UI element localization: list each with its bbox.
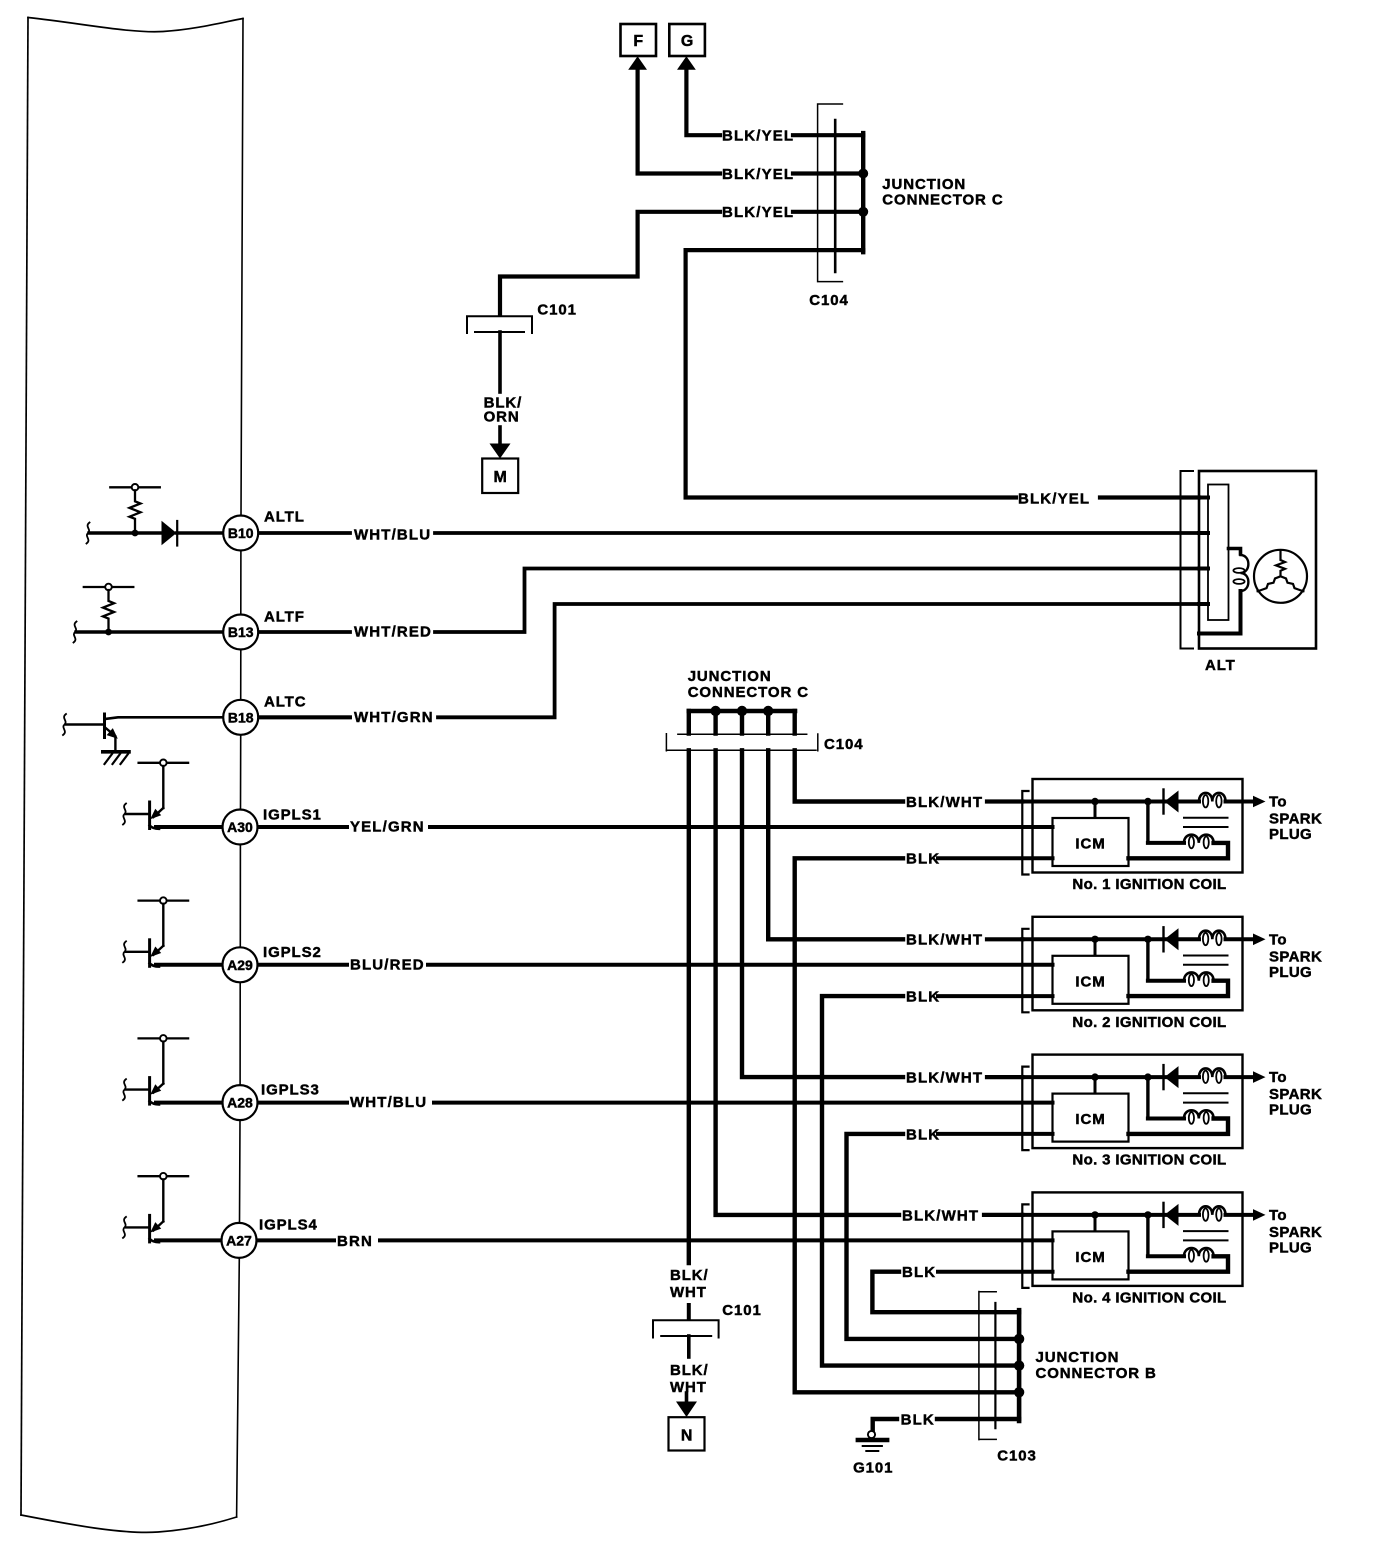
svg-text:BLK/WHT: BLK/WHT [902,1207,979,1224]
wire into B10 [89,531,161,534]
connector box F [621,24,657,56]
wire to spark plug output (No.2) [1226,937,1254,941]
wire BLK/WHT feed inside No.2 coil [1022,937,1199,941]
arrow down into M [490,444,511,459]
svg-text:BLK/YEL: BLK/YEL [722,166,794,183]
connector box M [482,459,518,494]
connector plate C104 (middle) [666,734,818,751]
ALT stator (3-phase generator) [1254,550,1307,603]
junction dot [1014,1387,1024,1397]
svg-text:ALTL: ALTL [264,509,305,526]
junction dot [737,706,747,716]
svg-text:To: To [1269,931,1287,948]
svg-text:SPARK: SPARK [1269,811,1322,828]
wire stub into ICM top (No.4) [1094,1215,1097,1231]
svg-text:IGPLS2: IGPLS2 [263,944,322,961]
svg-text:BLU/RED: BLU/RED [350,956,425,973]
transistor Q4 (A27 PNP driver) [126,1179,163,1242]
svg-text:WHT/BLU: WHT/BLU [354,527,431,544]
wire BLK/WHT feed inside No.4 coil [1022,1213,1199,1217]
wire IGPLS4 BRN from A27 to No.4 coil ICM [156,1238,1053,1242]
ALT pin stubs [1199,498,1208,605]
C104 top bus bar [861,133,865,252]
wire break curl at A27 base [123,1217,126,1238]
ECM pin circle A30 [223,810,258,845]
transistor Q3 (A28 PNP driver) [126,1042,163,1105]
junction connector B C103 body [979,1292,996,1440]
transformer core (No.3) [1184,1093,1228,1102]
svg-text:No. 4 IGNITION COIL: No. 4 IGNITION COIL [1072,1289,1226,1306]
wire break curl at A29 base [123,941,126,962]
ECM pin circle A27 [222,1223,257,1258]
svg-text:G: G [681,33,693,50]
pull-up rail for A27 driver [139,1173,189,1180]
wire into B13 [76,630,223,633]
svg-text:BLK/WHT: BLK/WHT [906,794,983,811]
svg-text:JUNCTION: JUNCTION [688,668,772,685]
junction dot to secondary winding (No.3) [1144,1073,1151,1080]
secondary winding L2b [1148,972,1214,986]
wire C104 pin5 down to No.1 coil BLK/WHT [795,750,903,801]
wire secondary return to ICM (No.4) [1129,1256,1229,1271]
svg-text:BLK: BLK [902,1264,936,1281]
svg-text:To: To [1269,1069,1287,1086]
wire stub into ICM top (No.3) [1094,1077,1097,1093]
arrow to spark plug (No.3) [1253,1071,1266,1083]
svg-text:N: N [681,1428,693,1445]
primary winding L1a [1199,793,1226,808]
ECM band outline [28,18,243,32]
arrow to spark plug (No.4) [1253,1209,1266,1221]
svg-text:A30: A30 [227,819,253,835]
svg-text:JUNCTION: JUNCTION [1036,1349,1120,1366]
wire stub down to secondary winding (No.4) [1146,1215,1149,1256]
wire to spark plug output (No.4) [1226,1213,1254,1217]
wire C104 pin2 down to No.4 coil BLK/WHT [716,750,899,1215]
ECM pin circle B13 [223,615,258,650]
primary winding L2a [1199,931,1226,946]
wire BLK No.1 coil to junction connector B [795,858,1019,1392]
wire stub down to secondary winding (No.1) [1146,802,1149,843]
svg-text:F: F [633,33,643,50]
secondary winding L1b [1148,835,1214,849]
svg-text:WHT: WHT [670,1284,707,1301]
svg-text:BLK: BLK [906,1126,940,1143]
wire BLK pin into ICM (No.3) [938,1132,1053,1136]
wire BLK/YEL pin3 with corner to C101 [500,212,863,314]
wire to spark plug output (No.3) [1226,1075,1254,1079]
wire break curl at A28 base [123,1079,126,1100]
diode D4 inside coil [1164,1203,1179,1227]
svg-text:IGPLS3: IGPLS3 [261,1082,320,1099]
svg-text:B18: B18 [228,709,254,725]
svg-text:BLK: BLK [906,851,940,868]
svg-text:BLK/WHT: BLK/WHT [906,1070,983,1087]
svg-text:M: M [494,469,507,486]
ignition coil No.3 case [1033,1055,1243,1149]
wire secondary return to ICM (No.3) [1129,1119,1229,1134]
arrow down into N [676,1402,697,1418]
ICM module box (No.3) [1053,1094,1129,1142]
svg-text:A28: A28 [227,1095,253,1111]
wire stub down to secondary winding (No.2) [1146,939,1149,980]
svg-text:WHT: WHT [670,1379,707,1396]
wire secondary return to ICM (No.2) [1129,981,1229,996]
svg-text:BLK: BLK [906,989,940,1006]
svg-text:No. 2 IGNITION COIL: No. 2 IGNITION COIL [1072,1014,1226,1031]
ECM pin circle A28 [223,1085,258,1120]
pull-up rail for A28 driver [139,1035,189,1042]
svg-text:CONNECTOR C: CONNECTOR C [882,192,1003,209]
svg-text:JUNCTION: JUNCTION [882,176,966,193]
svg-text:PLUG: PLUG [1269,964,1312,981]
transformer core (No.4) [1184,1231,1228,1240]
svg-text:BLK/: BLK/ [670,1362,709,1379]
svg-text:ICM: ICM [1075,1249,1105,1266]
svg-text:CONNECTOR B: CONNECTOR B [1036,1365,1157,1382]
pull-up rail for A30 driver [139,760,189,767]
ICM module box (No.1) [1053,818,1129,866]
svg-text:BLK/: BLK/ [670,1267,709,1284]
svg-text:ALTC: ALTC [264,694,306,711]
wire break curl at A30 base [123,804,126,825]
wire ALTL WHT/BLU from B10 to ALT [258,531,1199,535]
junction dot to secondary winding (No.2) [1144,936,1151,943]
junction dot [1014,1334,1024,1344]
junction dot pin2 [858,169,868,179]
svg-text:ICM: ICM [1075,1111,1105,1128]
wire BLK/WHT feed inside No.1 coil [1022,800,1199,804]
junction connector C (top) C104 body [818,104,843,282]
diode B10 [162,521,177,545]
wire C104 pin4 down to No.2 coil BLK/WHT [768,750,903,939]
wire BLK pin into ICM (No.4) [938,1270,1053,1274]
diode D2 inside coil [1164,927,1179,951]
ignition coil No.2 connector bracket [1022,929,1028,1013]
wire BLK/WHT feed inside No.3 coil [1022,1075,1199,1079]
svg-text:IGPLS1: IGPLS1 [263,807,322,824]
ignition coil No.4 connector bracket [1022,1204,1028,1288]
svg-text:ICM: ICM [1075,973,1105,990]
ECM pin circle B18 [223,700,258,735]
wire from BLK/YEL pin2 up to F [638,66,720,174]
svg-text:ICM: ICM [1075,836,1105,853]
svg-text:PLUG: PLUG [1269,1239,1312,1256]
secondary winding L4b [1148,1248,1214,1262]
C103 bus bar [1017,1310,1022,1421]
junction connector C (middle) bus bar [689,709,795,714]
ECM band right edge (wire through connector circles) [237,19,243,1518]
svg-text:PLUG: PLUG [1269,1102,1312,1119]
svg-text:C104: C104 [824,736,863,753]
junction dot to secondary winding (No.4) [1144,1211,1151,1218]
wire to spark plug output (No.1) [1226,800,1254,804]
resistor at B13 [103,590,114,632]
transistor Q2 (A29 PNP driver) [126,904,163,967]
wire BLK junction connector B to G101 ground [937,1417,1019,1421]
wire ALTC WHT/GRN from B18 riser to ALT [258,604,1199,717]
ICM module box (No.2) [1053,956,1129,1004]
voltage regulator block inside ALT [1208,485,1229,621]
junction dot [710,706,720,716]
wire BLK/YEL pin1 text-to-connector [793,133,863,137]
ground G101 [868,1431,875,1438]
svg-text:BLK/YEL: BLK/YEL [1018,491,1090,508]
wire BLK pin into ICM (No.2) [938,994,1053,998]
resistor at B10 [130,490,141,532]
svg-text:BLK: BLK [901,1412,935,1429]
pull-up rail for B13 [84,584,134,591]
ignition coil No.3 connector bracket [1022,1067,1028,1151]
arrow to spark plug (No.1) [1253,796,1266,808]
wire break curl B18 [63,714,66,735]
wire break curl B13 [74,622,77,643]
wire stub down to secondary winding (No.3) [1146,1077,1149,1118]
svg-text:BRN: BRN [337,1233,373,1250]
svg-text:WHT/GRN: WHT/GRN [354,709,434,726]
wire BLK/WHT below C101 to N [687,1305,691,1318]
ignition coil No.1 case [1033,779,1243,873]
svg-text:No. 1 IGNITION COIL: No. 1 IGNITION COIL [1072,876,1226,893]
transformer core (No.1) [1184,818,1228,827]
diode D3 inside coil [1164,1065,1179,1089]
svg-text:A27: A27 [226,1232,252,1248]
wire BLK pin into ICM (No.1) [938,856,1053,860]
svg-text:C103: C103 [997,1448,1036,1465]
svg-text:C104: C104 [809,292,848,309]
svg-text:IGPLS4: IGPLS4 [259,1217,318,1234]
wire BLK/ORN below C101 [498,332,502,392]
transformer core (No.2) [1184,956,1228,965]
primary winding L4a [1199,1206,1226,1221]
svg-text:SPARK: SPARK [1269,1224,1322,1241]
wire secondary return to ICM (No.1) [1129,843,1229,858]
ECM pin circle B10 [223,516,258,551]
svg-text:YEL/GRN: YEL/GRN [350,819,425,836]
alternator ALT case [1199,471,1316,649]
wire stub into ICM top (No.1) [1094,802,1097,818]
wire C104 pin3 down to No.3 coil BLK/WHT [742,750,903,1077]
svg-text:To: To [1269,794,1287,811]
wire stub into ICM top (No.2) [1094,939,1097,955]
inline connector C101 (bottom) [653,1320,719,1337]
pull-up rail for A29 driver [139,897,189,904]
svg-text:ORN: ORN [484,409,520,426]
connector box G [669,24,705,56]
inline connector C101 (top) [467,316,532,333]
connector box N [669,1417,705,1450]
svg-text:BLK/YEL: BLK/YEL [722,128,794,145]
svg-text:SPARK: SPARK [1269,948,1322,965]
wire break curl B10 [87,523,90,544]
svg-text:To: To [1269,1207,1287,1224]
junction dot pin3 [858,207,868,217]
svg-text:ALTF: ALTF [264,609,305,626]
ICM module box (No.4) [1053,1231,1129,1279]
svg-text:SPARK: SPARK [1269,1086,1322,1103]
svg-text:No. 3 IGNITION COIL: No. 3 IGNITION COIL [1072,1152,1226,1169]
wire IGPLS2 BLU/RED from A29 to No.2 coil ICM [156,963,1053,967]
junction dot B10 [132,530,139,537]
ignition coil No.2 case [1033,917,1243,1011]
pull-up rail for B10 [110,484,160,491]
secondary winding L3b [1148,1110,1214,1124]
wire BLK/YEL pin2 text-to-connector [793,171,863,175]
junction dot [763,706,773,716]
ECM pin circle A29 [223,947,258,982]
ALT field coil [1229,549,1241,555]
svg-text:C101: C101 [537,302,576,319]
junction dot B13 [105,629,112,636]
wire ALTF WHT/RED from B13 riser to ALT [258,569,1199,633]
wire BLK No.3 coil to junction connector B [847,1134,1020,1339]
transistor at B18 (NPN) [66,723,105,725]
wire IGPLS3 WHT/BLU from A28 to No.3 coil ICM [156,1101,1053,1105]
junction dot [1014,1360,1024,1370]
wire BLK No.4 coil to junction connector B [872,1272,1019,1313]
svg-text:CONNECTOR C: CONNECTOR C [688,684,809,701]
svg-text:BLK/YEL: BLK/YEL [722,204,794,221]
junction dot to ICM (No.3) [1091,1073,1098,1080]
svg-text:PLUG: PLUG [1269,826,1312,843]
diode D1 inside coil [1164,790,1179,814]
arrow up into G [677,56,696,70]
svg-text:B10: B10 [228,525,254,541]
arrow up into F [628,56,647,70]
primary winding L3a [1199,1068,1226,1083]
junction dot to secondary winding (No.1) [1144,798,1151,805]
alternator connector bracket [1181,471,1194,649]
junction dot to ICM (No.4) [1091,1211,1098,1218]
svg-text:A29: A29 [227,957,253,973]
svg-text:WHT/RED: WHT/RED [354,624,432,641]
wire C104 pin1 down to C101 [687,750,691,1263]
svg-text:G101: G101 [853,1460,893,1477]
junction dot to ICM (No.1) [1091,798,1098,805]
ground below B18 transistor [103,750,129,754]
bus drop stubs to connector plate [689,711,795,734]
ignition coil No.4 case [1033,1192,1243,1286]
wire from BLK/YEL pin1 up to G [686,66,720,135]
svg-text:ALT: ALT [1205,657,1236,674]
junction dot to ICM (No.2) [1091,936,1098,943]
ignition coil No.1 connector bracket [1022,791,1028,875]
arrow to spark plug (No.2) [1253,934,1266,946]
wire BLK/YEL pin4 from connector to ALT [686,250,1016,497]
wire BLK No.2 coil to junction connector B [822,996,1019,1366]
svg-text:BLK/WHT: BLK/WHT [906,932,983,949]
svg-text:WHT/BLU: WHT/BLU [350,1094,427,1111]
svg-text:C101: C101 [722,1302,761,1319]
transistor Q1 (A30 PNP driver) [126,766,163,829]
svg-text:B13: B13 [228,624,254,640]
wire IGPLS1 YEL/GRN from A30 to No.1 coil ICM [156,825,1053,829]
